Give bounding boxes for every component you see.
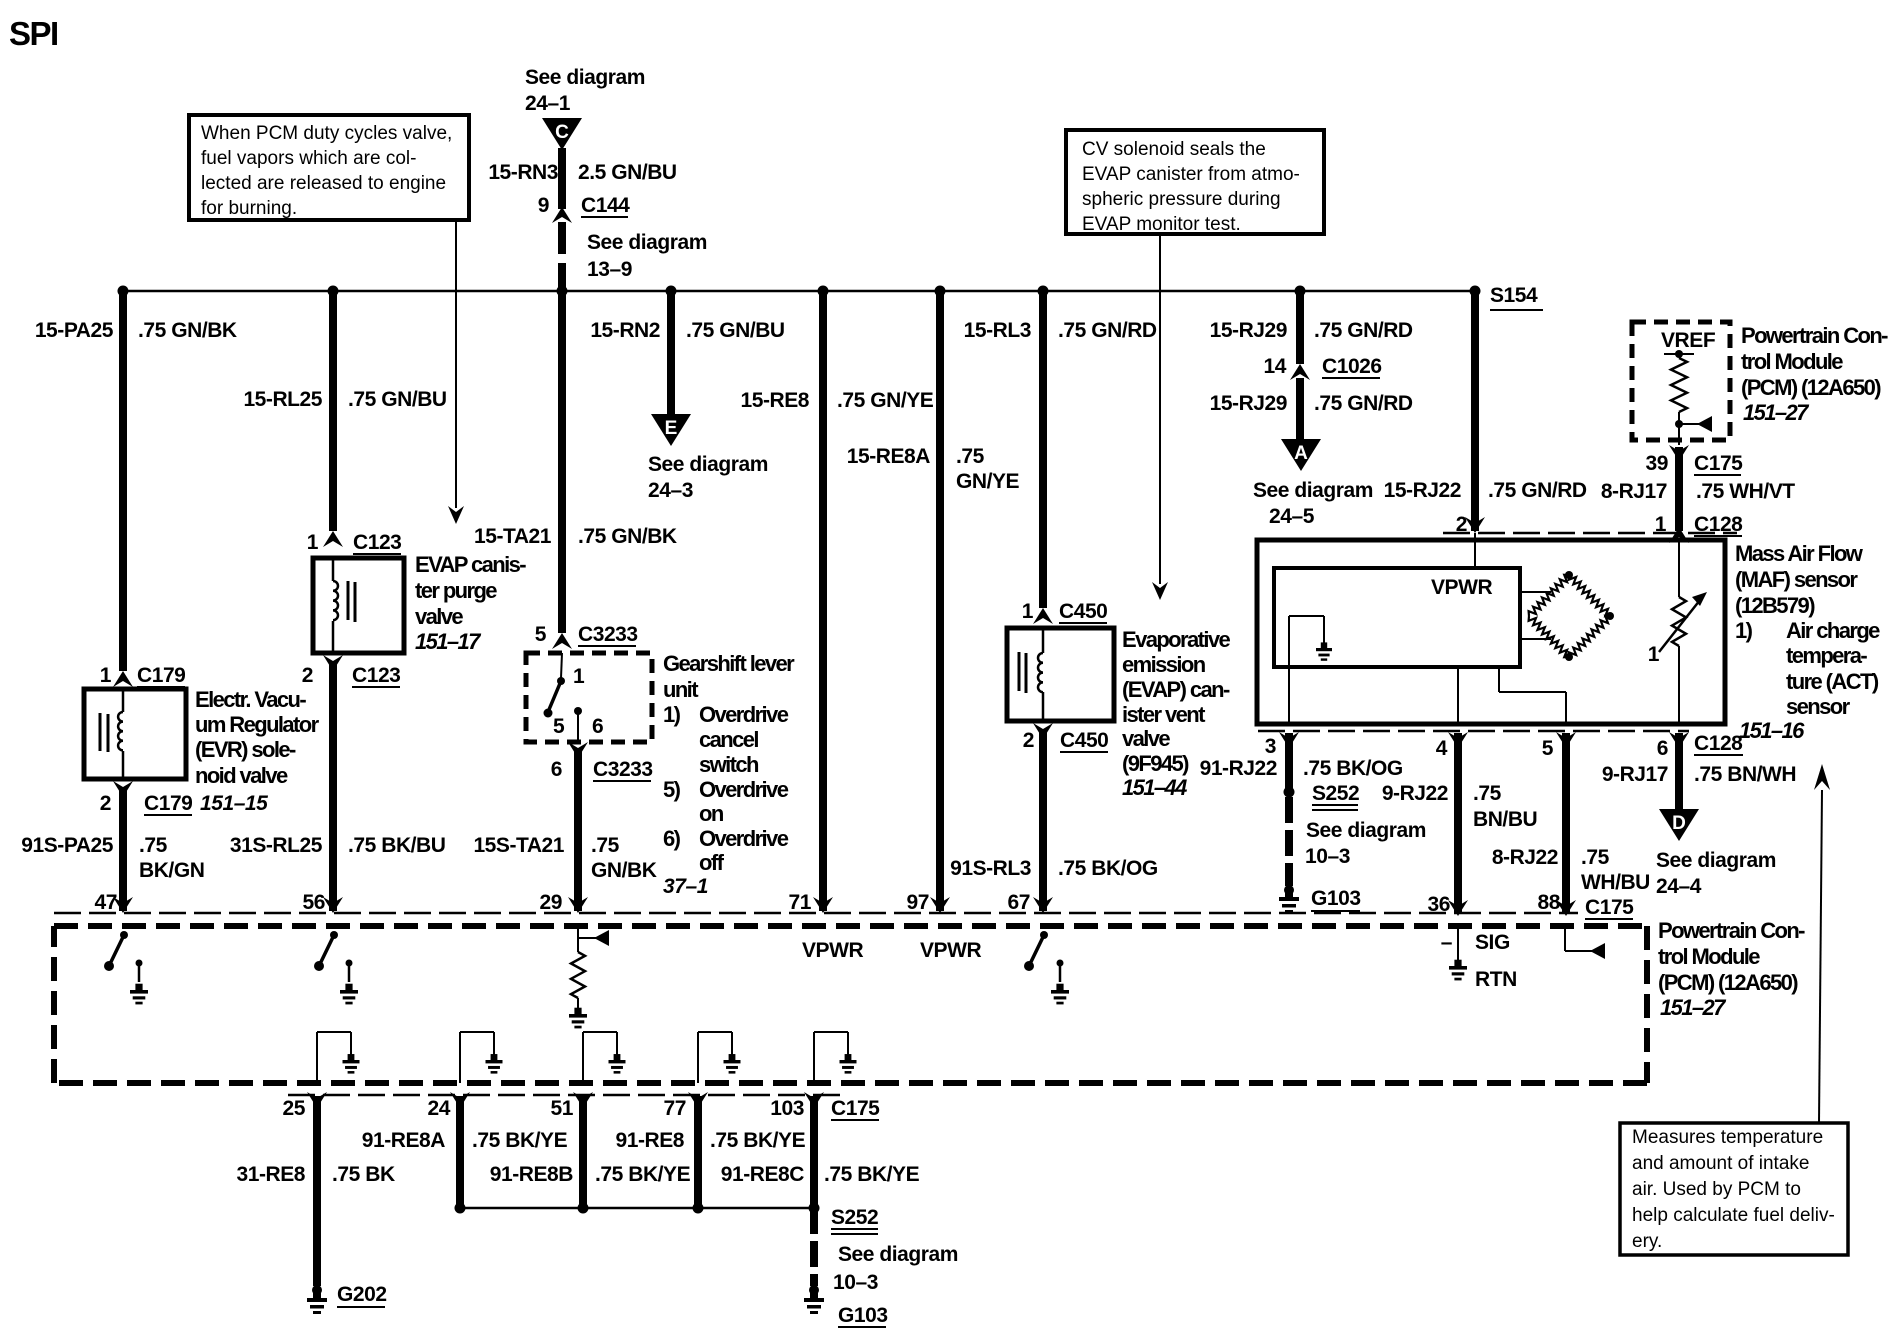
svg-text:1: 1 — [1648, 643, 1660, 666]
svg-text:C179: C179 — [137, 664, 185, 687]
svg-text:151–15: 151–15 — [200, 792, 268, 815]
svg-text:.75: .75 — [1581, 846, 1610, 869]
svg-text:.75 GN/YE: .75 GN/YE — [837, 389, 934, 412]
svg-text:.75 BK/OG: .75 BK/OG — [1303, 757, 1403, 780]
bus wire S154 — [123, 290, 1475, 293]
wire 15-RL3 — [1039, 291, 1047, 608]
note box: PCM duty cycle explanation — [189, 115, 469, 220]
svg-text:1: 1 — [573, 665, 585, 688]
connector triangle C — [542, 118, 582, 150]
wire 91S-RL3 — [1039, 731, 1047, 911]
svg-text:151–27: 151–27 — [1660, 995, 1727, 1020]
svg-text:15-RN3: 15-RN3 — [488, 161, 558, 184]
svg-text:S252: S252 — [1312, 782, 1359, 805]
gearshift switch common — [557, 653, 565, 685]
PCM ground hook pin x=698 — [698, 1032, 741, 1083]
pin 77 arrow — [688, 1092, 708, 1108]
svg-text:91S-PA25: 91S-PA25 — [21, 834, 114, 857]
svg-text:G103: G103 — [838, 1304, 888, 1327]
connector C175 label bottom right — [1585, 896, 1634, 919]
pin 71 arrow — [813, 897, 833, 913]
connector C128 label — [1694, 513, 1743, 536]
svg-text:.75 BK/YE: .75 BK/YE — [595, 1163, 691, 1186]
svg-text:unit: unit — [663, 677, 699, 702]
connector C175 dashed line (PCM bottom) — [288, 1094, 848, 1097]
connector C3233 pin 5 arrow — [552, 633, 572, 649]
PCM switch pin 56 — [314, 931, 338, 971]
wire 91-RE8A — [456, 1096, 464, 1208]
connector C128 pin 1 arrow — [1669, 527, 1689, 543]
pin 56 label — [303, 891, 325, 914]
svg-text:67: 67 — [1008, 891, 1030, 914]
svg-text:SIG: SIG — [1475, 931, 1510, 954]
svg-text:CV solenoid seals the: CV solenoid seals the — [1082, 139, 1266, 160]
connector C179 label lower — [144, 792, 192, 815]
label .75 BK/OG maf — [1303, 757, 1403, 780]
gearshift item 1c — [699, 752, 759, 777]
connector C450 label lower — [1060, 729, 1108, 752]
svg-text:.75 BK/YE: .75 BK/YE — [472, 1129, 568, 1152]
label .75 GN/BK — [138, 319, 237, 342]
svg-text:C3233: C3233 — [593, 758, 653, 781]
svg-text:1): 1) — [663, 702, 681, 727]
label 15S-TA21 — [473, 834, 564, 857]
label .75 GN/BK col3 lower — [591, 834, 657, 882]
label 91-RE8A — [362, 1129, 446, 1152]
svg-text:tempera-: tempera- — [1786, 643, 1867, 668]
svg-text:um Regulator: um Regulator — [195, 712, 320, 737]
bus junction node x=123 — [118, 286, 129, 297]
VREF lead to pin 39 — [1678, 424, 1680, 445]
svg-text:15-RL3: 15-RL3 — [964, 319, 1031, 342]
label .75 BK/GN — [139, 834, 204, 882]
wire 31-RE8 — [313, 1096, 321, 1286]
svg-text:10–3: 10–3 — [1305, 845, 1350, 868]
connector C128 bottom dashed line — [1258, 730, 1689, 733]
label pin 6 — [1657, 737, 1668, 760]
svg-text:3: 3 — [1265, 735, 1276, 758]
label pin 9 — [538, 194, 549, 217]
svg-text:air. Used by PCM to: air. Used by PCM to — [1632, 1179, 1801, 1200]
label .75 GN/RD col8 upper — [1314, 319, 1413, 342]
MAF VPWR box — [1274, 568, 1520, 667]
PCM ground hook pin x=460 — [460, 1032, 503, 1083]
label pin 5 — [1542, 737, 1554, 760]
svg-text:C: C — [555, 122, 569, 143]
svg-text:(EVAP) can-: (EVAP) can- — [1122, 677, 1230, 702]
svg-text:and amount of intake: and amount of intake — [1632, 1153, 1809, 1174]
svg-text:(MAF) sensor: (MAF) sensor — [1735, 567, 1858, 592]
label pin 1 C179 — [100, 664, 112, 687]
svg-text:31S-RL25: 31S-RL25 — [230, 834, 323, 857]
svg-text:15-TA21: 15-TA21 — [474, 525, 552, 548]
MAF pin 3 arrow — [1279, 732, 1299, 748]
label 15-RL25 — [243, 388, 322, 411]
svg-text:39: 39 — [1646, 452, 1668, 475]
svg-text:C175: C175 — [1585, 896, 1634, 919]
ACT lead to pin 6 — [1678, 646, 1680, 722]
svg-text:31-RE8: 31-RE8 — [236, 1163, 305, 1186]
svg-text:.75 GN/RD: .75 GN/RD — [1488, 479, 1587, 502]
gearshift pin label 1 — [573, 665, 585, 688]
svg-text:Overdrive: Overdrive — [699, 826, 789, 851]
svg-text:15-RE8: 15-RE8 — [740, 389, 809, 412]
svg-text:Evaporative: Evaporative — [1122, 627, 1230, 652]
wire C144 to bus (dashed) — [558, 222, 566, 291]
connector C123 label lower — [352, 664, 400, 687]
PCM ground stub pin 47 — [130, 960, 148, 1005]
leader arrowhead 2 — [1152, 582, 1168, 600]
svg-text:9-RJ17: 9-RJ17 — [1602, 763, 1668, 786]
VREF node — [1664, 350, 1694, 358]
svg-text:71: 71 — [789, 891, 812, 914]
PCM ground hook pin x=317 — [317, 1032, 360, 1083]
purge valve plates — [348, 581, 355, 622]
svg-text:97: 97 — [907, 891, 929, 914]
svg-text:Electr. Vacu-: Electr. Vacu- — [195, 687, 306, 712]
PCM description bottom right — [1658, 918, 1805, 1020]
MAF bridge left stub — [1520, 591, 1551, 593]
svg-text:Powertrain Con-: Powertrain Con- — [1741, 323, 1888, 348]
svg-text:15-RL25: 15-RL25 — [243, 388, 322, 411]
see diagram 24-3 label — [648, 453, 768, 502]
label pin 1 C123 — [307, 531, 319, 554]
connector C450 pin 1 arrow — [1033, 608, 1053, 624]
svg-text:.75 GN/BU: .75 GN/BU — [348, 388, 447, 411]
svg-text:S154: S154 — [1490, 284, 1538, 307]
pin 51 label — [551, 1097, 574, 1120]
purge valve description — [415, 552, 526, 654]
svg-text:See diagram: See diagram — [525, 66, 645, 89]
title SPI — [9, 15, 58, 52]
svg-text:Powertrain Con-: Powertrain Con- — [1658, 918, 1805, 943]
svg-text:.75: .75 — [1473, 782, 1502, 805]
pin 77 label — [664, 1097, 686, 1120]
svg-text:15-RJ22: 15-RJ22 — [1384, 479, 1461, 502]
EVAP purge valve box — [313, 558, 404, 653]
svg-text:switch: switch — [699, 752, 759, 777]
connector triangle A — [1281, 439, 1321, 471]
PCM pin36 ground lead — [1449, 926, 1467, 980]
pin 36 label — [1428, 893, 1450, 916]
svg-text:14: 14 — [1264, 355, 1287, 378]
svg-text:–: – — [1441, 931, 1453, 954]
svg-text:See diagram: See diagram — [648, 453, 768, 476]
label .75 GN/YE col6 — [956, 445, 1020, 493]
pin 88 arrow — [1556, 900, 1576, 916]
label .75 WH/VT — [1696, 480, 1795, 503]
svg-text:sensor: sensor — [1786, 694, 1851, 719]
svg-text:E: E — [665, 418, 678, 439]
ACT description — [1735, 618, 1880, 719]
svg-text:5: 5 — [1542, 737, 1554, 760]
vent valve plates — [1019, 652, 1026, 693]
svg-text:151–44: 151–44 — [1122, 775, 1187, 800]
svg-text:See diagram: See diagram — [1253, 479, 1373, 502]
svg-text:.75 WH/VT: .75 WH/VT — [1696, 480, 1795, 503]
svg-text:24–4: 24–4 — [1656, 875, 1702, 898]
svg-text:91-RJ22: 91-RJ22 — [1200, 757, 1277, 780]
pin 103 label — [770, 1097, 804, 1120]
label .75 GN/BU col4 — [686, 319, 785, 342]
svg-text:5): 5) — [663, 777, 681, 802]
pin 97 arrow — [930, 897, 950, 913]
svg-text:VPWR: VPWR — [1431, 576, 1492, 599]
bus junction node x=940 — [935, 286, 946, 297]
connector C179 label — [137, 664, 185, 687]
svg-text:24: 24 — [428, 1097, 451, 1120]
svg-text:C450: C450 — [1059, 600, 1107, 623]
svg-text:Mass Air Flow: Mass Air Flow — [1735, 541, 1864, 566]
svg-text:91-RE8A: 91-RE8A — [362, 1129, 446, 1152]
svg-text:C144: C144 — [581, 194, 630, 217]
pin 51 arrow — [573, 1092, 593, 1108]
svg-text:fuel vapors which are col-: fuel vapors which are col- — [201, 148, 416, 169]
bus junction node x=1475 — [1470, 286, 1481, 297]
svg-text:.75 GN/RD: .75 GN/RD — [1314, 319, 1413, 342]
wire 91-RE8C — [810, 1096, 818, 1208]
label .75 GN/RD col8 lower — [1314, 392, 1413, 415]
svg-text:4: 4 — [1436, 737, 1448, 760]
svg-text:C3233: C3233 — [578, 623, 638, 646]
svg-text:1: 1 — [100, 664, 112, 687]
connector C450 label — [1059, 600, 1107, 623]
label .75 BN/BU — [1473, 782, 1537, 831]
svg-text:8-RJ22: 8-RJ22 — [1492, 846, 1558, 869]
ground G103 (MAF branch) — [1279, 885, 1299, 913]
see diagram 24-1 label — [525, 66, 645, 115]
wire 91S-PA25 — [119, 790, 127, 911]
svg-text:ery.: ery. — [1632, 1231, 1662, 1252]
MAF bridge right stub — [1520, 638, 1551, 640]
label 15-PA25 — [35, 319, 114, 342]
PCM ground stub pin 56 — [340, 960, 358, 1005]
connector C144 label — [581, 194, 630, 217]
EVR coil — [118, 689, 123, 779]
svg-text:VREF: VREF — [1661, 329, 1716, 352]
svg-text:88: 88 — [1538, 891, 1561, 914]
svg-text:spheric pressure during: spheric pressure during — [1082, 189, 1281, 210]
ground bus join line — [460, 1207, 814, 1210]
connector triangle E — [651, 414, 691, 446]
wire 15-TA21 — [558, 291, 566, 633]
inline connector C144 arrow — [552, 207, 572, 223]
connector C123 pin 1 arrow — [323, 531, 343, 547]
gearshift item 6 — [663, 826, 789, 851]
svg-text:6): 6) — [663, 826, 681, 851]
svg-text:5: 5 — [535, 623, 547, 646]
leader line from note box 2 — [1159, 234, 1161, 584]
label 9-RJ17 — [1602, 763, 1668, 786]
PCM pin29 ground — [569, 998, 587, 1028]
connector C179 pin 1 arrow — [113, 671, 133, 687]
bus junction node x=333 — [328, 286, 339, 297]
svg-text:15-RJ29: 15-RJ29 — [1210, 392, 1287, 415]
PCM pin29 input arrow — [578, 926, 609, 952]
svg-text:.75 GN/BU: .75 GN/BU — [686, 319, 785, 342]
svg-text:(9F945): (9F945) — [1122, 751, 1189, 776]
label 15-RN2 — [590, 319, 660, 342]
wire S252 to G103 (dashed) — [1285, 797, 1293, 886]
VPWR label pin 71 — [802, 939, 863, 962]
ACT variable resistor — [1672, 597, 1686, 646]
svg-text:13–9: 13–9 — [587, 258, 632, 281]
svg-text:91-RE8C: 91-RE8C — [721, 1163, 805, 1186]
MAF pin 6 arrow — [1669, 732, 1689, 748]
EVAP vent valve box — [1007, 628, 1114, 721]
svg-text:.75 BK/OG: .75 BK/OG — [1058, 857, 1158, 880]
svg-text:6: 6 — [592, 715, 603, 738]
ground bus node x=698 — [693, 1203, 704, 1214]
svg-text:15S-TA21: 15S-TA21 — [473, 834, 564, 857]
VREF lower node — [1675, 412, 1683, 428]
MAF pin 2 arrow — [1465, 517, 1485, 533]
MAF pin 4 arrow — [1448, 732, 1468, 748]
label 15-RE8 — [740, 389, 809, 412]
pin 88 label — [1538, 891, 1561, 914]
MAF wheatstone bridge — [1529, 571, 1614, 661]
label pin 3 — [1265, 735, 1276, 758]
svg-text:9-RJ22: 9-RJ22 — [1382, 782, 1448, 805]
label 31-RE8 — [236, 1163, 305, 1186]
svg-text:BK/GN: BK/GN — [139, 859, 204, 882]
label 31S-RL25 — [230, 834, 323, 857]
wire 91-RE8 p77 — [694, 1096, 702, 1208]
pin 36 arrow — [1448, 900, 1468, 916]
svg-text:51: 51 — [551, 1097, 574, 1120]
svg-text:25: 25 — [283, 1097, 306, 1120]
note box: MAF measures explanation — [1620, 1123, 1848, 1255]
bus junction node x=823 — [818, 286, 829, 297]
vent valve description — [1122, 627, 1230, 800]
svg-text:GN/YE: GN/YE — [956, 470, 1020, 493]
pin 47 label — [95, 891, 117, 914]
svg-text:56: 56 — [303, 891, 325, 914]
label pin 2 C450 — [1023, 729, 1034, 752]
see diagram 10-3 label bottom — [833, 1243, 958, 1294]
label pin 5 C3233 — [535, 623, 547, 646]
leader arrowhead — [448, 506, 464, 524]
connector C179 pin 2 arrow — [113, 781, 133, 797]
svg-text:.75 BK: .75 BK — [332, 1163, 395, 1186]
MAF pin 2 lead — [1474, 533, 1476, 568]
VREF resistor — [1671, 358, 1687, 412]
svg-text:91-RE8: 91-RE8 — [615, 1129, 684, 1152]
svg-text:trol Module: trol Module — [1658, 944, 1760, 969]
gearshift item 6b — [699, 850, 725, 875]
svg-text:6: 6 — [1657, 737, 1668, 760]
connector C128 dashed line — [1443, 532, 1737, 535]
svg-text:for burning.: for burning. — [201, 198, 297, 219]
label pin 1 C450 — [1022, 600, 1034, 623]
svg-text:24–5: 24–5 — [1269, 505, 1315, 528]
splice S252 label bottom — [831, 1206, 878, 1234]
splice S252 label — [1312, 782, 1359, 810]
svg-text:C128: C128 — [1694, 513, 1743, 536]
gearshift item 1b — [699, 727, 758, 752]
svg-text:.75 BK/BU: .75 BK/BU — [348, 834, 445, 857]
gearshift item 5 — [663, 777, 789, 802]
svg-text:C175: C175 — [831, 1097, 880, 1120]
connector C3233 label lower — [593, 758, 653, 781]
svg-text:noid valve: noid valve — [195, 763, 288, 788]
svg-text:C175: C175 — [1694, 452, 1743, 475]
svg-text:15-RJ29: 15-RJ29 — [1210, 319, 1287, 342]
see diagram 10-3 label maf — [1305, 819, 1426, 868]
gearshift lever unit box — [526, 653, 652, 742]
svg-text:D: D — [1672, 813, 1686, 834]
svg-text:8-RJ17: 8-RJ17 — [1601, 480, 1667, 503]
svg-text:See diagram: See diagram — [1306, 819, 1426, 842]
svg-text:ter purge: ter purge — [415, 578, 497, 603]
label 2.5 GN/BU — [578, 161, 677, 184]
label .75 BN/WH — [1694, 763, 1796, 786]
connector C1026 label — [1322, 355, 1382, 378]
svg-text:77: 77 — [664, 1097, 686, 1120]
ground G103 label bottom — [838, 1304, 888, 1327]
MAF description — [1735, 541, 1864, 618]
svg-text:WH/BU: WH/BU — [1581, 871, 1650, 894]
label 15-RE8A — [847, 445, 931, 468]
svg-text:6: 6 — [551, 758, 562, 781]
see diagram 24-5 label — [1253, 479, 1373, 528]
svg-text:emission: emission — [1122, 652, 1206, 677]
ACT resistor arrow — [1659, 592, 1707, 652]
connector C175 label bottom — [831, 1097, 880, 1120]
bus junction node x=671 — [666, 286, 677, 297]
gearshift switch lever — [544, 681, 562, 718]
ground bus node x=583 — [578, 1203, 589, 1214]
svg-text:103: 103 — [770, 1097, 804, 1120]
ground G202 label — [337, 1283, 387, 1307]
connector C123 pin 2 arrow — [323, 655, 343, 671]
svg-text:151–27: 151–27 — [1743, 400, 1810, 425]
label 91S-PA25 — [21, 834, 114, 857]
label .75 BK — [332, 1163, 395, 1186]
svg-text:.75: .75 — [139, 834, 168, 857]
label 91S-RL3 — [950, 857, 1031, 880]
svg-text:24–3: 24–3 — [648, 479, 693, 502]
gearshift description — [663, 651, 795, 702]
wire 15S-TA21 — [574, 750, 582, 911]
svg-text:151–16: 151–16 — [1739, 718, 1805, 743]
svg-text:EVAP monitor test.: EVAP monitor test. — [1082, 214, 1241, 235]
svg-text:EVAP canis-: EVAP canis- — [415, 552, 526, 577]
ACT sensor lead — [1678, 541, 1680, 597]
label 91-RE8 p77 — [615, 1129, 684, 1152]
svg-text:2.5 GN/BU: 2.5 GN/BU — [578, 161, 677, 184]
svg-text:on: on — [699, 801, 724, 826]
pin 97 label — [907, 891, 929, 914]
inline connector C1026 arrow — [1290, 364, 1310, 380]
svg-text:Air charge: Air charge — [1786, 618, 1880, 643]
label 15-RJ29 upper — [1210, 319, 1287, 342]
svg-text:S252: S252 — [831, 1206, 878, 1229]
label 91-RE8C — [721, 1163, 805, 1186]
pin 24 label — [428, 1097, 451, 1120]
label pin 2 C179 — [100, 792, 111, 815]
wire 8-RJ17 — [1675, 447, 1683, 531]
svg-text:.75 GN/BK: .75 GN/BK — [578, 525, 677, 548]
wire 15-RE8 — [819, 291, 827, 911]
label pin 14 — [1264, 355, 1287, 378]
connector C3233 pin 6 arrow — [568, 742, 588, 758]
svg-text:.75: .75 — [591, 834, 620, 857]
svg-text:Gearshift lever: Gearshift lever — [663, 651, 795, 676]
ACT pin 1 label — [1648, 643, 1660, 666]
wire 15-RL25 — [329, 291, 337, 531]
gearshift pin label 6 — [592, 715, 603, 738]
